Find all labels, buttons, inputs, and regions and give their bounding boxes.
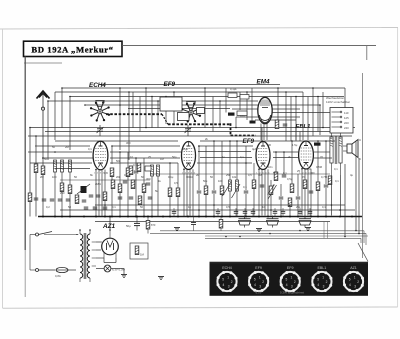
svg-text:EF9: EF9 [287, 266, 294, 270]
junction 39 [283, 151, 285, 153]
svg-text:1: 1 [322, 276, 324, 280]
wire extra v9 [253, 188, 255, 216]
capacitor C out 3 [296, 197, 301, 199]
wire ech v4 [135, 158, 137, 170]
svg-text:20k: 20k [116, 175, 121, 179]
tube EF9 second leads [259, 169, 268, 215]
variable capacitor C1 [97, 125, 104, 136]
svg-text:4: 4 [317, 283, 319, 287]
coil antenna L1 [54, 160, 57, 172]
svg-text:EBL1: EBL1 [318, 266, 327, 270]
svg-text:25k: 25k [296, 205, 301, 209]
wire top v11 [295, 97, 297, 141]
vertical pair into chassis 2 [327, 222, 329, 239]
resistor R ech 1 [110, 168, 114, 177]
svg-text:10k: 10k [232, 175, 237, 179]
svg-text:0,1: 0,1 [112, 205, 116, 209]
wire az1 top [96, 241, 102, 243]
wire upper h9 [236, 116, 300, 118]
tube top view EF9 [181, 102, 201, 123]
junction 57 [355, 230, 357, 232]
junction 12 [151, 96, 153, 98]
ground bus [95, 221, 330, 223]
junction 4 [204, 87, 206, 89]
svg-text:4: 4 [223, 283, 225, 287]
vertical pair into chassis [323, 222, 325, 239]
svg-text:4μ: 4μ [350, 173, 353, 177]
junction 41 [135, 157, 137, 159]
junction 55 [270, 209, 272, 211]
capacitor left 5 [82, 200, 87, 202]
wire mid h8c [197, 162, 252, 164]
wire extra v6 [295, 128, 297, 142]
wire top v2 [54, 92, 56, 140]
junction 31 [245, 162, 247, 164]
svg-text:50: 50 [74, 175, 77, 179]
component box mid right [237, 111, 247, 116]
tuning gang dashed link [106, 114, 256, 135]
wire upper v20 [132, 92, 134, 128]
bus capacitor 8 [298, 208, 303, 217]
capacitor em4 [283, 124, 288, 126]
svg-text:AZ1: AZ1 [350, 266, 357, 270]
wire top h1 [62, 87, 345, 89]
tube socket EF9 3 [280, 266, 301, 292]
resistor field coil [146, 216, 156, 234]
capacitor C ef 2 [212, 191, 217, 193]
wire ech v1 [111, 146, 113, 164]
svg-text:0,1μ: 0,1μ [168, 175, 174, 179]
sheet border right [362, 73, 364, 258]
junction 24 [235, 127, 237, 129]
wire ef v4 [205, 146, 207, 186]
capacitor extra g [123, 181, 128, 183]
resistor R out 4 [316, 182, 320, 191]
wire ef v7 [229, 141, 231, 180]
resistor R out 3 [288, 198, 292, 207]
svg-text:125: 125 [344, 116, 349, 120]
resistor box 1M [130, 243, 148, 259]
chassis line 1 [160, 230, 364, 232]
wire top v6 [128, 92, 130, 160]
capacitor C out 2 [279, 197, 284, 199]
junction 25 [295, 127, 297, 129]
svg-text:250: 250 [60, 191, 65, 195]
wire mid h7b [110, 157, 180, 159]
wire mid h3 [28, 135, 352, 137]
capacitor extra p [34, 198, 39, 200]
dark blob near EBL1 [314, 143, 321, 146]
title box BD 192A Merkur [24, 41, 123, 56]
svg-text:50: 50 [141, 175, 144, 179]
rectifier tube AZ1 [102, 230, 119, 258]
svg-text:1: 1 [354, 276, 356, 280]
component box top right 2 [240, 95, 249, 100]
junction 53 [136, 209, 138, 211]
svg-text:70: 70 [302, 175, 305, 179]
bus capacitor 2 [216, 208, 221, 217]
page edge left [2, 29, 4, 308]
wire ech v8 [127, 176, 129, 217]
wire upper h7 [100, 84, 280, 86]
junction 49 [104, 204, 106, 206]
wire top v10 [277, 88, 279, 128]
tube EF9 first [182, 142, 196, 170]
svg-text:0,1μF: 0,1μF [230, 87, 237, 91]
capacitor C ech 1 [134, 171, 139, 173]
wire upper v31 [285, 92, 287, 141]
wire right v4 [331, 175, 333, 216]
volume potentiometer [268, 185, 275, 195]
svg-text:50: 50 [52, 145, 55, 149]
junction 13 [165, 96, 167, 98]
wire gap h3 [273, 157, 298, 159]
svg-text:5: 5 [286, 278, 288, 282]
chassis right drop 2 [365, 233, 367, 245]
wire extra v2 [307, 97, 309, 141]
wire left v a [29, 128, 31, 217]
wire left v f [69, 172, 71, 217]
wire mid h1 [30, 127, 355, 129]
wire top v4 [47, 101, 49, 160]
ground power [121, 275, 127, 278]
junction 64 [109, 229, 111, 231]
junction 6 [312, 87, 314, 89]
svg-text:0,1: 0,1 [243, 185, 247, 189]
bus capacitor 3 [234, 208, 239, 217]
capacitor mid extra s [260, 185, 265, 187]
wire top h6 [128, 108, 230, 110]
wire upper v21 [139, 97, 141, 132]
IF transformer box [160, 97, 182, 111]
bus capacitor 4 [243, 208, 248, 217]
resistor left low [75, 195, 79, 204]
svg-text:50: 50 [140, 205, 143, 209]
capacitor left row 2 [50, 199, 55, 201]
pot arrow 3 [268, 185, 277, 199]
junction 47 [258, 168, 260, 170]
wire mid h5b [112, 145, 180, 147]
wire left v d [54, 172, 56, 217]
wire upper h10 [270, 112, 330, 114]
svg-text:1 5μ: 1 5μ [292, 143, 298, 147]
svg-text:2: 2 [357, 280, 359, 284]
wire az mid [115, 258, 117, 263]
wire out v1 [275, 152, 277, 172]
pot arrow 2 [232, 184, 241, 198]
wire mid h4b [200, 140, 335, 142]
wire upper v29 [246, 92, 248, 120]
svg-text:0,1: 0,1 [334, 167, 338, 171]
wire mid h5c [198, 145, 253, 147]
wire out v10 [280, 200, 282, 216]
wire ef v10 [169, 196, 171, 217]
junction 15 [317, 96, 319, 98]
svg-text:100: 100 [52, 175, 57, 179]
junction 44 [213, 140, 215, 142]
wire ef v15 [221, 194, 223, 217]
svg-text:1M: 1M [140, 253, 145, 257]
junction 30 [169, 162, 171, 164]
junction 20 [119, 104, 121, 106]
capacitor left row 1 [42, 199, 47, 201]
svg-text:2: 2 [294, 280, 296, 284]
junction 35 [325, 140, 327, 142]
resistor R ech 5 [138, 196, 142, 205]
output transformer [330, 133, 342, 175]
wire ech v5 [143, 158, 145, 184]
resistor em4 grid [275, 120, 279, 129]
svg-text:0,5: 0,5 [248, 173, 252, 177]
wire extra v4 [317, 97, 319, 132]
wire mid h6 [28, 151, 92, 153]
potentiometer dark left [77, 184, 90, 194]
svg-text:0,8A: 0,8A [55, 274, 61, 278]
coil IF2 a [229, 180, 232, 191]
power transformer [76, 230, 96, 282]
svg-text:110: 110 [344, 111, 349, 115]
wire top h2 [55, 91, 303, 93]
wire ef v11 [177, 196, 179, 217]
svg-text:0,3W abgeschirmt: 0,3W abgeschirmt [280, 290, 304, 294]
junction 43 [236, 140, 238, 142]
resistor R ef 2 [176, 188, 180, 197]
wire out v9 [270, 192, 272, 216]
wire lamp down [123, 269, 125, 275]
wire ech v12 [157, 176, 159, 217]
electrolytic capacitor cup 3 [299, 216, 311, 228]
pilot lamp [104, 265, 125, 272]
tube EBL1 leads [302, 169, 311, 216]
svg-text:870: 870 [151, 223, 156, 227]
wire out v14 [325, 188, 327, 216]
resistor R out 1 [274, 172, 278, 181]
wire top v13 [344, 88, 346, 108]
svg-text:0,1: 0,1 [240, 155, 244, 159]
wire top v5 [119, 88, 121, 150]
svg-text:5: 5 [317, 278, 319, 282]
svg-text:0,7M: 0,7M [321, 175, 328, 179]
junction 5 [277, 87, 279, 89]
junction 18 [219, 100, 221, 102]
coil IF2 b [236, 180, 239, 191]
wire gap h1 [198, 151, 251, 153]
junction 54 [198, 209, 200, 211]
svg-text:10: 10 [262, 205, 265, 209]
wire right v1 [355, 141, 357, 231]
pin numbers EBL1 [299, 173, 313, 175]
svg-text:50: 50 [210, 175, 213, 179]
chassis line 3 [205, 235, 368, 237]
wire ech v10 [143, 192, 145, 217]
junction 48 [301, 168, 303, 170]
chassis right drop 3 [360, 238, 362, 243]
junction 60 [225, 236, 227, 238]
wire out v5 [280, 184, 282, 196]
svg-text:25k: 25k [226, 173, 231, 177]
svg-text:0,5: 0,5 [226, 205, 230, 209]
resistor R out 2 [290, 184, 294, 193]
wire left v b [35, 136, 37, 217]
svg-text:25: 25 [148, 155, 151, 159]
resistor R ef 1 [168, 188, 172, 197]
chassis line 2 [150, 232, 366, 234]
white box under spider2 [178, 113, 190, 121]
svg-text:3: 3 [323, 284, 325, 288]
svg-text:50k: 50k [116, 159, 121, 163]
svg-text:ECH4: ECH4 [89, 82, 106, 89]
component box top right 1 [228, 93, 237, 98]
wire left v c [42, 152, 44, 217]
junction 26 [322, 127, 324, 129]
svg-text:4: 4 [286, 283, 288, 287]
bus line 1 [95, 204, 345, 206]
wire ech v9 [135, 174, 137, 217]
wire extra v3 [312, 88, 314, 136]
svg-text:2: 2 [231, 280, 233, 284]
svg-text:0,1: 0,1 [322, 205, 326, 209]
wire ef v3 [198, 146, 200, 190]
svg-text:EF9: EF9 [164, 81, 176, 88]
bus capacitor 7 [281, 208, 286, 217]
junction 23 [145, 127, 147, 129]
svg-text:0,1: 0,1 [335, 179, 339, 183]
svg-text:50μμ: 50μμ [182, 147, 189, 151]
wire az h [104, 262, 116, 264]
capacitor extra b [96, 195, 101, 197]
coil IF L4 [151, 165, 154, 176]
wire ech v2 [119, 152, 121, 184]
resistor extra j [111, 180, 115, 189]
junction 11 [69, 96, 71, 98]
svg-text:6,3V 0,3W: 6,3V 0,3W [112, 268, 125, 272]
capacitor extra a [89, 195, 94, 197]
page edge right [397, 28, 399, 307]
svg-text:EM4: EM4 [257, 79, 270, 86]
wire top h5 [85, 104, 320, 106]
wire ef v14 [213, 194, 215, 217]
coil antenna L2 [61, 160, 64, 172]
bus line 2 [60, 209, 355, 211]
wire right v5 [340, 175, 342, 216]
svg-text:3: 3 [291, 284, 293, 288]
page edge top [0, 27, 398, 29]
capacitor extra l [93, 207, 98, 209]
capacitor left row 3 [58, 199, 63, 201]
ground symbol 3 [174, 228, 180, 231]
wire upper h8 [232, 108, 300, 110]
capacitor left row 4 [66, 199, 71, 201]
svg-text:50p: 50p [172, 155, 177, 159]
wire gap h2 [200, 157, 252, 159]
svg-text:240: 240 [344, 126, 349, 130]
resistor extra d [129, 166, 133, 175]
wire gap h5 [314, 157, 332, 159]
resistor mid extra r [252, 180, 256, 189]
resistor extra o [68, 185, 72, 194]
svg-text:0,2: 0,2 [46, 205, 50, 209]
coil antenna L3 [69, 160, 72, 172]
resistor input 1 [34, 164, 38, 173]
wire top v8 [204, 88, 206, 128]
antenna [37, 91, 50, 152]
svg-text:50k: 50k [273, 171, 278, 175]
svg-text:300: 300 [126, 141, 131, 145]
svg-text:5: 5 [349, 278, 351, 282]
wire top v12 [319, 105, 321, 135]
svg-text:BD 192A „Merkur“: BD 192A „Merkur“ [31, 45, 113, 55]
svg-text:300: 300 [146, 177, 151, 181]
svg-text:10n: 10n [268, 165, 273, 169]
wire mid h2 [45, 131, 350, 133]
wire upper v24 [165, 97, 167, 125]
resistor R ech 2 [118, 184, 122, 193]
wire ef v8 [236, 141, 238, 180]
wire az g [109, 255, 111, 263]
junction 8 [173, 91, 175, 93]
voltage selector switch [330, 108, 353, 134]
svg-text:EF9: EF9 [255, 266, 262, 270]
wire extra v8 [253, 163, 255, 180]
wire upper v32 [290, 97, 292, 142]
svg-text:300Ω: 300Ω [186, 175, 193, 179]
capacitor C out 1 [282, 175, 287, 177]
svg-text:10: 10 [130, 155, 133, 159]
junction 37 [119, 151, 121, 153]
wire ef v18 [245, 194, 247, 217]
sheet border top [122, 45, 376, 47]
wire az down 1 [103, 258, 105, 263]
wire extra v7 [299, 132, 301, 142]
ground az [158, 277, 164, 280]
wire mid h5 [35, 145, 90, 147]
wire ef v17 [236, 191, 238, 217]
capacitor extra m [103, 207, 108, 209]
wire lamp 2 [111, 268, 124, 270]
capacitor C ech 4 [148, 197, 153, 199]
tube EM4 leads [261, 124, 267, 141]
wire out v6 [297, 174, 299, 196]
wire upper v27 [219, 101, 221, 128]
junction 59 [344, 236, 346, 238]
svg-text:10n: 10n [240, 114, 245, 118]
junction 10 [285, 91, 287, 93]
capacitor C ech 2 [118, 197, 123, 199]
svg-text:0,1μ: 0,1μ [133, 163, 139, 167]
wire out v4 [270, 180, 272, 186]
wire out v13 [317, 190, 319, 216]
svg-text:50: 50 [44, 157, 47, 161]
ground symbol 2 [305, 228, 311, 231]
junction 58 [358, 233, 360, 235]
tube socket EBL1 4 [311, 266, 332, 292]
tube socket EF9 2 [248, 266, 269, 292]
svg-text:2MΩ: 2MΩ [95, 182, 101, 186]
wire mid h10 [150, 173, 330, 175]
junction 63 [299, 230, 301, 232]
svg-text:6,3V: 6,3V [256, 290, 262, 294]
wire out v3 [291, 141, 293, 184]
wire top v3 [69, 97, 71, 151]
tube EBL1 [299, 141, 314, 169]
junction 34 [317, 140, 319, 142]
junction 3 [145, 87, 147, 89]
wire top v7 [151, 97, 153, 129]
junction 40 [42, 157, 44, 159]
svg-text:1n: 1n [222, 155, 225, 159]
wire upper v30 [251, 88, 253, 121]
svg-text:2: 2 [326, 280, 328, 284]
